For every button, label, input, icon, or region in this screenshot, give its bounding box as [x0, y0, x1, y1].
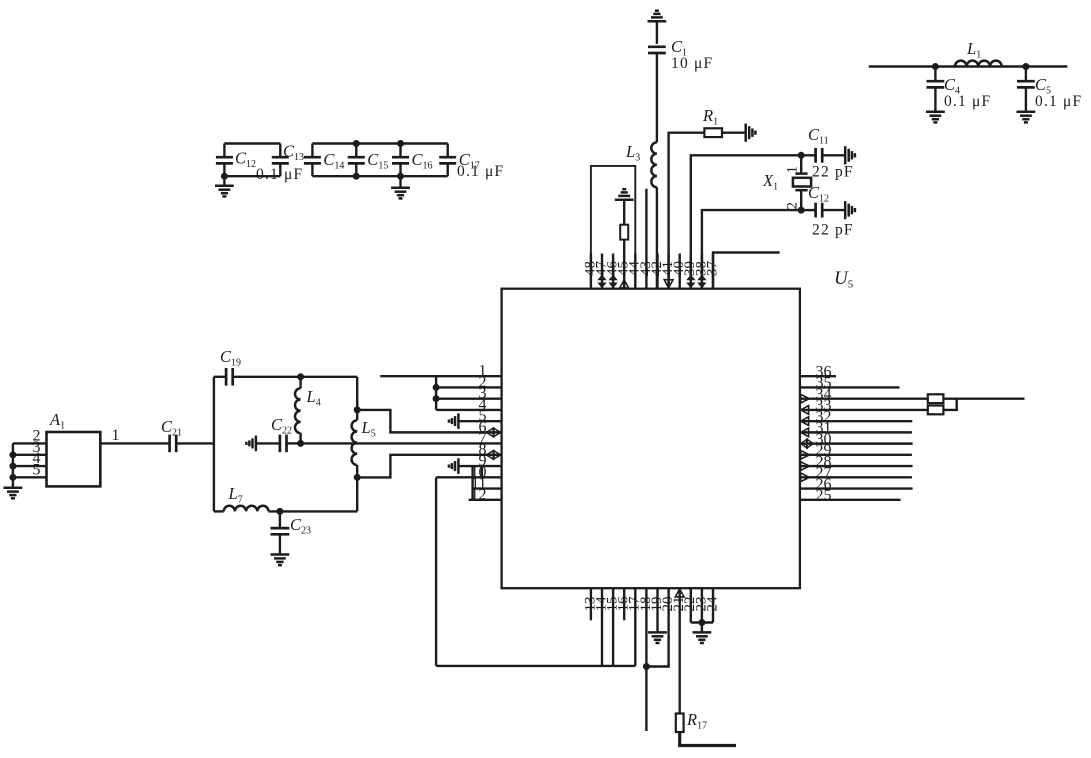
svg-text:C13: C13 — [283, 142, 304, 164]
capacitor C4 — [934, 67, 936, 82]
svg-text:25: 25 — [816, 487, 832, 504]
ground (cap bank group2) — [391, 188, 410, 199]
wire pin 40 stub (top) — [679, 254, 681, 289]
capacitor C1 — [648, 45, 666, 48]
inductor L4 — [295, 388, 301, 433]
wire pin 47 stub (top) — [601, 254, 603, 289]
ground (C11, pointing right) — [845, 146, 855, 164]
wire L7 to node — [269, 510, 358, 512]
ground (pins 22-24) — [693, 632, 712, 643]
wire L4 bottom lead — [299, 433, 301, 443]
svg-text:L3: L3 — [625, 142, 640, 164]
wire pin 18 long — [645, 588, 647, 731]
wire pins 9-10 bus — [481, 466, 483, 477]
wire node2 to C12 — [801, 209, 815, 211]
wire pin 17 — [634, 588, 636, 666]
capacitor C17 — [447, 144, 449, 158]
wire pin 48 stub (top) — [590, 254, 592, 289]
capacitor C12 (bank) — [223, 144, 225, 158]
ferrite bead pin 34 — [928, 394, 944, 403]
wire pin 39 to crystal node 1 — [691, 155, 801, 288]
wire C23 to ground — [279, 534, 281, 554]
capacitor C22 — [279, 435, 282, 453]
svg-text:0.1 μF: 0.1 μF — [256, 166, 303, 183]
wire pin 34 output — [943, 397, 1024, 399]
svg-text:C19: C19 — [220, 347, 241, 369]
junction A1 bus 2 — [9, 463, 16, 470]
ground (C22, pointing left) — [246, 436, 256, 452]
wire pin 15 — [612, 588, 614, 666]
crystal X1 — [795, 172, 807, 175]
wire L5 top to IC pin 6 — [357, 410, 501, 432]
junction crystal node 2 — [798, 207, 805, 214]
ground (pin 19) — [648, 632, 667, 643]
wire pin 33 — [800, 409, 928, 411]
svg-text:2: 2 — [785, 202, 801, 210]
wire cap bank group1 top rail — [224, 142, 280, 144]
junction pin 23 rail — [698, 619, 705, 626]
wire pin 26 — [800, 487, 913, 489]
wire A1 pin 4 — [13, 465, 47, 467]
wire pin 4 — [436, 409, 502, 411]
resistor R (pin 45 pull) — [620, 225, 628, 240]
bidirectional arrow pin 6 — [486, 428, 493, 437]
svg-text:C15: C15 — [367, 150, 388, 172]
ground (cap bank group1) — [215, 186, 234, 197]
wire pin 31 — [800, 431, 912, 433]
ground (C5) — [1017, 112, 1036, 123]
wire cap bank group2 top rail — [312, 142, 447, 144]
wire pin 13 stub — [590, 588, 592, 620]
input arrow pin 32 — [801, 417, 809, 426]
wire X1 to crystal node 2 — [800, 190, 802, 210]
svg-text:C11: C11 — [808, 125, 829, 147]
svg-text:C14: C14 — [323, 150, 344, 172]
wire network left rail — [213, 377, 215, 512]
ground (C4) — [926, 112, 945, 123]
junction crystal node 1 — [798, 152, 805, 159]
wire A1 pin1 to C21 — [100, 442, 169, 444]
junction C12 bottom — [221, 173, 228, 180]
wire C21 to matching network — [177, 442, 214, 444]
svg-text:0.1 μF: 0.1 μF — [1035, 93, 1082, 110]
ground (top of C1) — [648, 11, 667, 22]
bidirectional arrow pin 46 — [608, 275, 617, 281]
IC U5 body — [502, 289, 800, 589]
svg-text:C12: C12 — [235, 149, 256, 171]
bidirectional arrow pin 39 — [686, 275, 695, 281]
wire L5 bottom to IC pin 8 — [357, 455, 501, 478]
bidirectional arrow pin 8 — [486, 451, 493, 460]
wire node1 to X1 — [800, 155, 802, 173]
wire pin 14 — [601, 588, 603, 666]
wire pin 46 stub (top) — [612, 254, 614, 289]
input arrow pin 21 (up triangle) — [675, 589, 684, 597]
junction C16 bottom — [397, 173, 404, 180]
wire pin 23 — [701, 588, 703, 622]
bidirectional arrow pin 38 — [697, 275, 706, 281]
wire node to IC pin 7 — [301, 442, 502, 444]
output arrow pin 28 — [801, 462, 810, 471]
junction filter left — [932, 63, 939, 70]
wire pin 25 — [800, 499, 901, 501]
input arrow pin 31 — [801, 428, 809, 437]
wire A1 pin 2 — [13, 442, 47, 444]
wire pin 12 — [469, 499, 502, 501]
capacitor C19 — [225, 368, 228, 386]
junction A1 bus 3 — [9, 474, 16, 481]
junction C15 top — [353, 140, 360, 147]
wire to group2 ground — [399, 176, 401, 188]
wire pin 1 — [380, 375, 501, 377]
wire pins 9-12 bus — [471, 466, 473, 500]
wire pin 45 stub (top) — [623, 254, 625, 289]
wire pin 32 — [800, 420, 912, 422]
wire pin 28 — [800, 465, 913, 467]
wire pin 37 step — [713, 253, 780, 289]
ground (R1, pointing right) — [746, 124, 756, 142]
wire C1 to L3 — [656, 53, 658, 142]
wire pin 3 — [436, 397, 502, 399]
wire pin 42 stub (top) — [656, 254, 658, 289]
svg-text:22 pF: 22 pF — [812, 164, 854, 181]
wire pin 33 jog to pin 34 line — [943, 399, 956, 410]
wire pin 36 — [800, 375, 836, 377]
svg-text:10 μF: 10 μF — [671, 55, 713, 72]
wire pin 30 — [800, 442, 913, 444]
resistor R17 — [676, 714, 684, 733]
input arrow pin 45 (up triangle) — [620, 280, 629, 288]
wire pin 24 — [712, 588, 714, 622]
input arrow pin 33 — [801, 406, 809, 415]
junction L4 bottom / C22 — [297, 440, 304, 447]
wire top row left — [214, 376, 226, 378]
wire A1 input bus — [12, 443, 14, 487]
wire pin 23 rail to ground — [701, 623, 703, 633]
wire pin 35 — [800, 386, 900, 388]
svg-text:C21: C21 — [161, 417, 182, 439]
wire pin 21 to R17 — [679, 588, 681, 713]
output arrow pin 34 — [801, 394, 810, 403]
wire A1 pin 3 — [13, 454, 47, 456]
wire L4 top lead — [299, 377, 301, 389]
svg-text:22 pF: 22 pF — [812, 222, 854, 239]
capacitor C11 — [814, 148, 817, 163]
ground (C23) — [271, 555, 290, 566]
junction C16 top — [397, 140, 404, 147]
wire pins 1-4 bus — [435, 376, 437, 410]
wire C22 to node — [287, 442, 301, 444]
wire L5 top lead — [356, 410, 358, 420]
wire R17 to output — [680, 732, 736, 746]
ferrite bead pin 33 — [928, 406, 944, 415]
capacitor C14 — [311, 144, 313, 158]
junction pin 3 bus — [433, 395, 440, 402]
wire pin 19 to ground — [656, 588, 658, 632]
svg-text:L1: L1 — [966, 39, 981, 61]
junction pin 18 / pin 20 — [643, 663, 650, 670]
svg-text:U5: U5 — [834, 268, 854, 291]
capacitor C23 — [271, 527, 290, 530]
inductor L5 — [352, 420, 358, 465]
output arrow pin 41 (down triangle) — [664, 280, 673, 288]
svg-text:1: 1 — [112, 427, 120, 444]
inductor L7 — [224, 506, 269, 512]
wire pin 38 to crystal node 2 — [702, 210, 801, 289]
svg-text:1: 1 — [785, 166, 801, 174]
wire pin 27 — [800, 476, 912, 478]
wire pin 34 — [800, 397, 928, 399]
wire A1 pin 5 — [13, 476, 47, 478]
svg-text:L7: L7 — [228, 484, 243, 506]
wire pin 38 stub (top) — [701, 254, 703, 289]
capacitor C16 — [399, 144, 401, 158]
svg-text:C12: C12 — [808, 183, 829, 205]
wire pin 37 stub (top) — [712, 254, 714, 289]
capacitor C21 — [168, 435, 171, 453]
capacitor C12 (crystal load) — [814, 203, 817, 218]
svg-text:L5: L5 — [361, 418, 376, 440]
wire ground to C22 — [256, 442, 280, 444]
wire top corner to L5 — [356, 377, 358, 410]
wire pin 16 stub — [623, 588, 625, 620]
wire cap bank group1 bottom rail — [224, 175, 280, 177]
wire pin 5 — [458, 420, 501, 422]
svg-text:0.1 μF: 0.1 μF — [457, 163, 504, 180]
svg-text:R1: R1 — [702, 106, 718, 128]
output arrow pin 29 — [801, 451, 810, 460]
wire ground to C1 — [656, 21, 658, 44]
ground (pin 9, pointing left) — [449, 458, 459, 474]
block A1 body — [47, 432, 101, 486]
svg-text:C22: C22 — [271, 415, 292, 437]
capacitor C13 — [279, 144, 281, 158]
resistor R1 — [704, 128, 722, 137]
wire pin 29 — [800, 454, 912, 456]
capacitor C5 — [1025, 67, 1027, 82]
junction C15 bottom — [353, 173, 360, 180]
junction pin 2 bus — [433, 384, 440, 391]
svg-text:5: 5 — [33, 461, 41, 478]
wire pin 45 to resistor — [623, 240, 625, 254]
wire pin 41 stub (top) — [667, 254, 669, 289]
junction A1 bus 1 — [9, 451, 16, 458]
inductor L1 — [955, 61, 1002, 67]
wire node1 to C11 — [801, 154, 815, 156]
svg-text:24: 24 — [704, 596, 720, 612]
svg-text:X1: X1 — [762, 171, 778, 193]
bidirectional arrow pin 30 — [801, 439, 807, 448]
wire resistor to ground — [623, 200, 625, 225]
junction L7 / C23 — [276, 508, 283, 515]
wire box pins 48-44 — [591, 166, 635, 289]
wire pin 39 stub (top) — [690, 254, 692, 289]
output arrow pin 27 — [801, 473, 810, 482]
ground (C12, pointing right) — [845, 201, 855, 219]
wire L3 to pin 42 — [656, 187, 658, 289]
wire pin 41 up to R1 — [669, 133, 705, 289]
inductor L3 — [651, 142, 657, 187]
wire L5 to bottom row — [356, 477, 358, 511]
wire pin 20 jog — [646, 588, 668, 666]
bidirectional arrow pin 47 — [597, 275, 606, 281]
ground (A1) — [4, 488, 23, 499]
wire C12 to ground — [822, 209, 845, 211]
wire R1 to ground — [722, 131, 746, 133]
ground (pin 45 pull, pointing up) — [615, 189, 634, 200]
svg-text:0.1 μF: 0.1 μF — [944, 93, 991, 110]
capacitor C15 — [355, 144, 357, 158]
wire loop pin10 down — [435, 477, 437, 666]
junction filter right — [1022, 63, 1029, 70]
wire pin 9 — [458, 465, 501, 467]
wire filter rail — [869, 65, 1068, 67]
wire pin 11 — [473, 487, 502, 489]
junction L5 bottom — [354, 474, 361, 481]
svg-text:C16: C16 — [412, 150, 433, 172]
junction L5 top — [354, 406, 361, 413]
wire loop bottom rail — [436, 665, 635, 667]
svg-text:L4: L4 — [306, 387, 321, 409]
wire cap bank group2 bottom rail — [312, 175, 447, 177]
svg-text:12: 12 — [471, 486, 487, 503]
wire node to C23 — [279, 511, 281, 528]
svg-text:A1: A1 — [49, 410, 65, 432]
wire C11 to ground — [822, 154, 845, 156]
wire top row right — [233, 376, 357, 378]
wire pin 43 stub (top) — [645, 189, 647, 289]
wire pin 22 — [690, 588, 692, 622]
wire L5 bottom lead — [356, 465, 358, 477]
svg-text:C23: C23 — [290, 515, 311, 537]
junction L4 top — [297, 373, 304, 380]
wire bottom row left — [214, 510, 224, 512]
wire pins 22-24 rail — [691, 621, 713, 623]
wire to group1 ground — [223, 176, 225, 186]
wire pin 2 — [436, 386, 502, 388]
wire pin 44 stub (top) — [634, 254, 636, 289]
wire pin 10 — [436, 476, 502, 478]
svg-text:R17: R17 — [686, 710, 707, 732]
ground (pin 5, pointing left) — [449, 413, 459, 429]
